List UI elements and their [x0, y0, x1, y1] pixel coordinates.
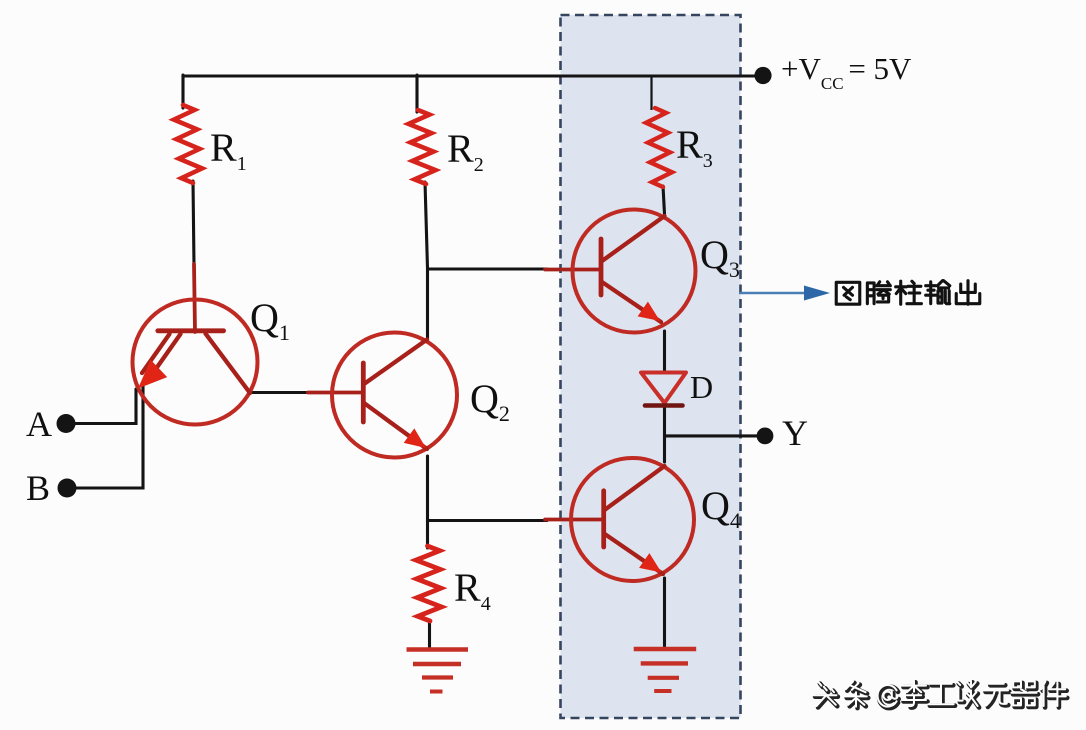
wire: R4 bottom lead to ground: [428, 620, 431, 648]
label R4: [454, 565, 491, 615]
wire: red stub R1 to Q1 collector: [194, 264, 195, 332]
label D: [690, 369, 713, 405]
wire: red stub into Q4 base: [545, 518, 604, 522]
resistor R2: [409, 110, 436, 184]
wire: red stub into Q2 base: [308, 391, 363, 395]
label R2: [447, 126, 484, 176]
node: output Y terminal: [757, 428, 774, 445]
ground (below R4): [407, 650, 469, 692]
svg-text:Y: Y: [782, 413, 808, 453]
label Y: [782, 413, 808, 453]
label Q1: [250, 295, 290, 345]
wire: R1 top lead: [181, 75, 184, 108]
resistor R1: [174, 105, 202, 183]
node: input A terminal: [57, 414, 76, 433]
label A: [26, 404, 52, 444]
wire: Q4 emitter to ground: [663, 578, 666, 646]
label B: [26, 468, 50, 508]
annotation arrow (totem-pole output): [739, 286, 830, 301]
resistor R4: [416, 546, 442, 621]
wire: R3 bottom lead to Q3 collector: [663, 186, 665, 214]
resistor R3: [646, 108, 672, 187]
wire: R2 top lead: [415, 75, 418, 112]
totem-pole highlight box: [561, 15, 741, 718]
wire: R2 bottom lead to node: [425, 182, 428, 269]
label R3: [676, 122, 713, 172]
label Q2: [470, 376, 510, 426]
diode D: [641, 373, 686, 406]
wire: node R2 to Q3 base (black part): [428, 267, 548, 270]
wire: Q2 emitter down to node: [426, 456, 429, 548]
transistor Q2: [332, 333, 457, 458]
wire: Y junction to output dot: [665, 434, 761, 437]
annotation text: totem-pole output (figure label): [836, 281, 980, 305]
transistor Q1: [133, 300, 258, 425]
label Q4: [701, 483, 741, 533]
wire: node to Q4 base (black part): [428, 519, 548, 522]
svg-text:B: B: [26, 468, 50, 508]
wire: input B to Q1 emitter: [67, 382, 143, 488]
wire: R3 top lead: [650, 77, 652, 110]
wire: red stub into Q3 base: [545, 268, 601, 272]
wire: input A to Q1 emitter: [66, 389, 136, 424]
wire: node to Q2 collector: [426, 269, 429, 341]
wire: Q1 collector-output to Q2 base (black part): [250, 391, 312, 394]
label Q3: [700, 232, 740, 282]
wire: Q3 emitter to diode: [663, 331, 666, 372]
transistor Q4: [571, 458, 694, 581]
wire: R1 bottom lead to Q1 collector: [193, 181, 194, 266]
svg-text:D: D: [690, 369, 713, 405]
wire: Vcc top rail: [183, 74, 757, 77]
label +Vcc = 5V: [781, 51, 912, 93]
node: input B terminal: [58, 479, 77, 498]
ground (below Q4): [634, 649, 697, 691]
svg-text:A: A: [26, 404, 52, 444]
label R1: [210, 125, 247, 175]
watermark text: [814, 681, 1068, 708]
wire: Y junction to Q4 collector: [663, 436, 666, 462]
node: Vcc terminal: [754, 67, 771, 84]
transistor Q3: [573, 210, 696, 333]
wire: diode to node Y junction: [663, 408, 666, 436]
